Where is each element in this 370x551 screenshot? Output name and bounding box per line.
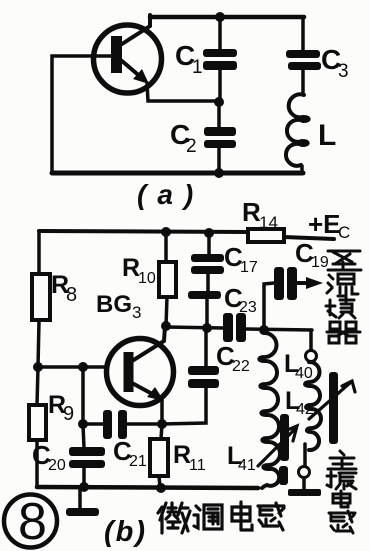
wire bottom rail (b) (37, 487, 258, 488)
capacitor C22 (204, 328, 208, 366)
text 器 (327, 322, 360, 343)
core bar right (329, 372, 338, 444)
resistor R14 (248, 229, 284, 242)
resistor R11 (161, 424, 162, 439)
capacitor C3 (286, 50, 321, 70)
wire C23 to right node (246, 329, 312, 330)
inductor L40/L41 (259, 333, 280, 488)
wire C3 to L (301, 70, 305, 95)
node dot C19/L40 (259, 325, 269, 335)
capacitor C17 (207, 233, 211, 255)
wire L to bottom rail (300, 166, 304, 173)
svg-text:20: 20 (48, 457, 66, 474)
wire bottom rail (a) (52, 171, 303, 176)
terminal circle top (306, 351, 317, 362)
svg-text:14: 14 (259, 213, 278, 232)
transistor Q1 (94, 15, 220, 101)
text 主 (of 主振电感) (328, 451, 356, 469)
text 至 (328, 251, 361, 270)
text 电 (of 微调电感) (232, 502, 252, 530)
resistor R8 (32, 274, 50, 320)
node dot bottom rail (a) (214, 168, 224, 178)
svg-text:(a): (a) (137, 179, 204, 210)
capacitor C20 (83, 424, 84, 448)
Chinese labels drawn as strokes (158, 251, 361, 533)
svg-text:8: 8 (66, 284, 77, 306)
ground main (78, 488, 82, 508)
svg-text:21: 21 (129, 453, 147, 470)
svg-text:11: 11 (189, 457, 206, 474)
svg-text:17: 17 (240, 259, 258, 276)
svg-text:19: 19 (311, 254, 329, 271)
text 混 (327, 274, 358, 296)
inductor L42 (305, 362, 321, 450)
text 微 (158, 503, 190, 533)
svg-text:BG: BG (96, 291, 132, 318)
text 频 (326, 297, 355, 318)
wire base (b) (38, 365, 107, 369)
resistor R9 (29, 405, 46, 440)
text 振 (327, 472, 356, 489)
svg-text:40: 40 (295, 365, 313, 382)
svg-text:22: 22 (232, 358, 250, 375)
capacitor plate below C17 (188, 291, 221, 299)
inductor L (286, 94, 309, 165)
svg-text:+E: +E (308, 209, 341, 239)
svg-text:1: 1 (192, 57, 203, 78)
node dot emitter junction (a) (214, 97, 224, 107)
ground L42 (302, 478, 306, 489)
resistor R10 (164, 232, 168, 261)
text 电 (333, 491, 350, 507)
wire top rail (b) (39, 231, 248, 232)
wire left branch (b) (37, 231, 41, 274)
wire collector node (166, 327, 223, 328)
core bar middle (279, 414, 289, 485)
wire right branch down to C3 (301, 17, 305, 51)
capacitor C1 (218, 17, 222, 50)
text 调 (194, 505, 222, 529)
svg-text:(b): (b) (104, 516, 147, 548)
node dot base branch (78, 362, 88, 372)
node dot C17 top (204, 228, 214, 238)
node dot collector (161, 321, 171, 331)
capacitor C23 (223, 313, 246, 342)
text 感 (329, 511, 355, 533)
node dot C17/C22 (202, 323, 212, 333)
svg-text:L: L (318, 119, 336, 152)
svg-text:3: 3 (338, 61, 349, 82)
wire top rail (a) (150, 15, 304, 20)
svg-text:8: 8 (18, 493, 47, 551)
svg-text:9: 9 (63, 403, 74, 425)
arrow core middle (258, 428, 296, 466)
wire L42 bottom (303, 444, 307, 466)
terminal circle bottom (299, 467, 310, 478)
node dot base-left (33, 362, 43, 372)
svg-text:C: C (338, 223, 350, 242)
capacitor C19 (264, 283, 274, 330)
capacitor C21 (81, 367, 85, 424)
capacitor C2 (217, 102, 221, 128)
svg-text:23: 23 (239, 299, 257, 316)
node dot R10 top (161, 227, 171, 237)
svg-text:41: 41 (238, 457, 256, 474)
svg-text:3: 3 (132, 303, 141, 322)
node dot top rail (a) (215, 12, 225, 22)
figure number 8 (4, 495, 57, 548)
wire L42 top (309, 330, 313, 350)
arrow core right (309, 382, 351, 419)
wire left branch (a) (52, 56, 114, 173)
text 感 (of 微调电感) (258, 503, 284, 530)
svg-text:2: 2 (186, 136, 197, 157)
svg-text:10: 10 (138, 270, 156, 287)
wire emitter to C21 junction (157, 419, 167, 429)
transistor Q2 BG3 (107, 326, 174, 424)
arrow to mixer (297, 281, 310, 285)
